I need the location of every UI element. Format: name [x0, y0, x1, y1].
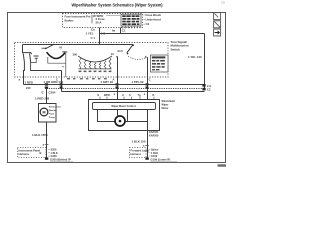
svg-text:1 YEL 140: 1 YEL 140 — [188, 55, 202, 59]
svg-text:1 BLK 1550: 1 BLK 1550 — [32, 133, 48, 137]
svg-text:KAP101: KAP101 — [149, 131, 159, 134]
module name label — [162, 100, 176, 110]
svg-text:Brakes: Brakes — [65, 18, 74, 22]
fuse block: dashed box (Instrument Panel Fuse Block) — [63, 14, 143, 28]
wire: top bus to right side — [100, 33, 205, 35]
svg-text:G200 (Behind IP: G200 (Behind IP — [50, 158, 71, 162]
washer switch contacts — [22, 45, 32, 63]
table pin ticks — [123, 26, 141, 28]
wire: fuse pin A down to switch feed — [99, 28, 101, 45]
svg-text:B: B — [153, 94, 155, 97]
bus wire 2 (dashed) — [47, 88, 203, 90]
connector blobs x=117 — [116, 83, 119, 85]
svg-text:C204: C204 — [49, 90, 56, 94]
wire: washer pump feed — [46, 89, 48, 103]
svg-text:1 GRY 91: 1 GRY 91 — [101, 80, 114, 84]
svg-text:Washer: Washer — [49, 110, 57, 112]
svg-text:Harness: Harness — [19, 152, 30, 156]
park switch dashed travel arc — [128, 56, 146, 59]
wiper motor module box — [89, 100, 160, 131]
svg-text:Pump: Pump — [49, 117, 56, 119]
wire: fuse pin B down — [120, 28, 122, 35]
label: Turn Signal/Multifunction Switch — [171, 40, 189, 52]
wire: motor ground drop — [147, 131, 149, 159]
icon: image placeholder 2 — [214, 21, 221, 28]
internal wiring — [98, 110, 115, 122]
connector blobs x=147 — [146, 83, 149, 85]
harness dashed box left — [18, 148, 47, 158]
svg-text:1 PPL 92: 1 PPL 92 — [132, 80, 144, 84]
icon: arrow button — [214, 29, 221, 36]
svg-text:Motor: Motor — [162, 107, 169, 110]
contact stub down — [62, 63, 66, 77]
fuse WPR 25A — [92, 14, 120, 25]
wiper arm thick arc — [47, 52, 65, 58]
wire: switch output LO (x=117) — [117, 57, 119, 99]
svg-text:M: M — [43, 111, 46, 115]
wire: washer pump ground drop — [46, 122, 48, 158]
run/park contact: feed diagonal — [127, 45, 133, 53]
module pin labels — [98, 93, 155, 97]
svg-text:G200: G200 — [51, 155, 58, 158]
svg-text:E: E — [42, 90, 44, 94]
svg-text:1a: 1a — [221, 1, 225, 5]
border frame — [8, 13, 226, 163]
resistor R5 — [99, 62, 101, 69]
connector table C2 — [121, 14, 141, 26]
bus wire 3 — [62, 91, 205, 93]
svg-text:WPR: WPR — [104, 94, 110, 97]
svg-text:A: A — [122, 94, 124, 97]
washer cam symbol — [34, 56, 39, 58]
svg-text:Switch: Switch — [171, 47, 181, 51]
svg-text:C: C — [149, 77, 151, 81]
harness dashed box right — [130, 148, 147, 158]
delay resistor ladder arc — [78, 56, 112, 62]
wiper motor M2 — [115, 116, 125, 126]
wire: second contact down — [31, 62, 62, 71]
svg-text:Underhood: Underhood — [146, 18, 162, 22]
svg-text:B: B — [40, 151, 42, 155]
svg-text:C1: C1 — [122, 28, 126, 32]
switch position legend table — [151, 55, 169, 72]
svg-text:C2: C2 — [146, 22, 150, 26]
ground leader labels left — [48, 149, 58, 158]
resistor R7 — [109, 58, 111, 69]
wiper/washer switch: dashed box — [15, 43, 169, 78]
wire: right vertical drop 1 YEL 140 — [204, 34, 206, 89]
resistor R2 — [84, 60, 86, 69]
resistor R4 — [94, 63, 96, 69]
ground leader labels right — [149, 149, 159, 158]
svg-text:1 YEL: 1 YEL — [86, 32, 94, 36]
svg-text:Fluid: Fluid — [49, 114, 55, 116]
bottom-right caption smudge — [218, 164, 227, 167]
svg-text:1 BLK 150: 1 BLK 150 — [132, 140, 146, 144]
ground G109 — [145, 157, 148, 159]
wire: switch output park (x=147) — [147, 57, 149, 99]
svg-text:10: 10 — [111, 52, 114, 56]
svg-text:Harness: Harness — [131, 152, 142, 156]
splice tick left — [45, 143, 49, 145]
svg-text:Fuse Block: Fuse Block — [146, 13, 162, 17]
svg-text:300: 300 — [73, 53, 78, 57]
switch arm (mist) — [46, 44, 54, 48]
arc bracket — [48, 53, 66, 64]
icon: image placeholder 1 — [214, 13, 221, 20]
svg-text:1 RED: 1 RED — [25, 80, 34, 84]
svg-text:Forward Lamp: Forward Lamp — [131, 148, 150, 152]
washer pump name label — [49, 107, 61, 120]
svg-text:Instrument Panel: Instrument Panel — [19, 148, 41, 152]
ladder position labels — [79, 71, 112, 73]
ground G200 — [45, 157, 48, 159]
wire: x=60 jog from switch to bus 3 — [61, 71, 63, 92]
switch feed line — [23, 44, 134, 46]
feed stub left — [42, 47, 46, 49]
svg-text:2 G: 2 G — [207, 84, 211, 88]
svg-text:G109: G109 — [151, 155, 158, 158]
ladder pin labels below edge — [67, 78, 107, 79]
module pin ticks — [100, 97, 154, 99]
wiper motor control block — [93, 103, 156, 110]
resistor R6 — [104, 61, 106, 69]
resistor R1 — [79, 57, 81, 69]
wire: washer contacts down — [23, 62, 26, 85]
svg-text:25 A: 25 A — [96, 21, 103, 25]
svg-text:C 1: C 1 — [91, 36, 96, 40]
svg-text:Fuse Instrument Pnl: Fuse Instrument Pnl — [65, 14, 91, 18]
svg-text:Wiper Motor Control: Wiper Motor Control — [111, 105, 135, 108]
svg-text:Windshield: Windshield — [49, 107, 61, 109]
connector C204 blobs — [45, 83, 48, 85]
connector blobs x=204 — [202, 84, 205, 87]
svg-text:Wiper/Washer System Schematics: Wiper/Washer System Schematics (Wiper Sy… — [72, 2, 163, 7]
ladder bottom bar — [79, 68, 112, 70]
bus wire 1 (1 RED / 1 OR GRN) — [24, 84, 205, 86]
washer pump motor M1 — [40, 108, 48, 116]
svg-text:Tg: Tg — [138, 94, 142, 97]
svg-text:94.5: 94.5 — [118, 49, 124, 53]
splice tick right — [145, 144, 149, 146]
connector blobs x=60 — [60, 83, 63, 85]
node: park contact — [127, 53, 129, 55]
svg-text:1 RED 238: 1 RED 238 — [35, 97, 50, 101]
arc end hook — [62, 51, 67, 53]
svg-text:C2: C2 — [207, 88, 211, 92]
resistor R3 — [89, 62, 91, 69]
windshield washer fluid pump box — [39, 104, 57, 123]
svg-text:KAP200: KAP200 — [149, 135, 159, 138]
svg-text:G109 (Lower Rt: G109 (Lower Rt — [151, 158, 171, 162]
svg-text:240: 240 — [26, 86, 31, 90]
fuse block callout labels right — [143, 13, 161, 26]
node: run contact — [132, 44, 134, 46]
